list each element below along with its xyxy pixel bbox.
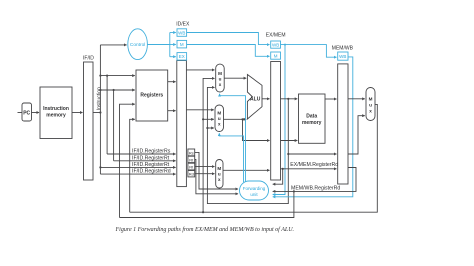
- wire Rd to destination mux: [195, 173, 215, 175]
- wire EX/MEM.RegisterRd down to forwarding unit: [273, 169, 283, 184]
- svg-text:IF/ID.RegisterRd: IF/ID.RegisterRd: [132, 169, 171, 175]
- node bus junction at IF/ID output: [99, 111, 101, 113]
- registers: [136, 70, 168, 121]
- Rt field box: [188, 156, 195, 162]
- Rt field box 2: [188, 163, 195, 170]
- svg-text:ALU: ALU: [250, 97, 261, 103]
- svg-text:MEM/WB: MEM/WB: [332, 46, 354, 52]
- svg-text:M: M: [217, 111, 221, 116]
- wire write data riser from bottom rail: [130, 119, 135, 212]
- svg-text:x: x: [218, 177, 221, 182]
- svg-text:x: x: [218, 122, 221, 127]
- svg-text:IF/ID.RegisterRs: IF/ID.RegisterRs: [132, 149, 171, 155]
- Rs field box: [188, 149, 195, 156]
- wire write register rail: [120, 191, 294, 217]
- node write register rail tap: [293, 190, 295, 192]
- wire write register riser from bottom rail: [120, 104, 135, 217]
- svg-text:Instruction: Instruction: [96, 87, 102, 110]
- svg-text:memory: memory: [302, 120, 322, 126]
- wire MEM/WB forward into mux B: [203, 118, 214, 120]
- svg-text:M: M: [274, 53, 278, 58]
- svg-text:WB: WB: [272, 42, 279, 47]
- wire ALU result bypass to MEM/WB: [288, 153, 336, 155]
- svg-text:Instruction: Instruction: [43, 106, 69, 112]
- wire ID/EX WB to EX/MEM WB: [187, 33, 270, 45]
- wire store data to EX/MEM: [243, 119, 270, 140]
- wire bracket to WB: [170, 32, 176, 34]
- wire ALU output to EX/MEM: [262, 98, 270, 100]
- node bypass split junction: [287, 153, 289, 155]
- svg-text:EX/MEM: EX/MEM: [266, 32, 286, 38]
- MEM/WB pipeline register: [332, 46, 354, 184]
- wire MEM/WB ALU result loop to mux M4: [348, 116, 365, 154]
- wire EX/MEM forward into mux B: [207, 127, 213, 129]
- svg-text:EX/MEM.RegisterRd: EX/MEM.RegisterRd: [290, 162, 338, 168]
- node EX/MEM.RegisterRd tap: [282, 168, 284, 170]
- node rail tap for MEM/WB forward: [202, 211, 204, 213]
- svg-text:IF/ID: IF/ID: [83, 56, 94, 62]
- wire mux M2 to ALU with store tap: [224, 118, 247, 120]
- node junction bus read2: [99, 89, 101, 91]
- svg-text:Registers: Registers: [140, 93, 163, 99]
- wire ID/EX M to EX/MEM M: [187, 45, 270, 57]
- wire mux M4 output down to write data rail: [130, 104, 378, 212]
- wire EX/MEM store data to data memory: [281, 140, 298, 142]
- svg-text:EX: EX: [179, 54, 185, 59]
- wire PC input stub: [18, 112, 23, 114]
- wire MEM/WB RegWrite to forwarding unit: [273, 57, 353, 197]
- wire EX/MEM forward vertical down and left: [207, 87, 288, 203]
- wire Rs to forwarding unit: [195, 152, 238, 189]
- svg-text:M: M: [218, 71, 222, 76]
- wire ID/EX read1 to mux A: [186, 69, 214, 71]
- node cyan tee EX/MEM RegWrite: [284, 44, 286, 46]
- op-amp ALU: [247, 75, 262, 120]
- EX/MEM pipeline register: [266, 32, 286, 180]
- wire IF/ID.RegisterRt line: [114, 155, 176, 161]
- wire instruction memory to IF/ID: [72, 112, 83, 114]
- svg-text:Rd: Rd: [189, 172, 194, 177]
- wire read register 1: [100, 75, 134, 77]
- ID/EX EX box: [177, 53, 187, 61]
- svg-text:M: M: [369, 96, 373, 101]
- mux M1 ALU input A: [216, 64, 225, 92]
- wire mux M3 output to EX/MEM: [223, 169, 270, 171]
- data memory: [299, 94, 326, 143]
- wire PC to instruction memory: [32, 112, 40, 114]
- EX/MEM M box: [271, 52, 281, 59]
- wire EX/MEM RegWrite down to forwarding unit: [273, 45, 285, 195]
- wire IF/ID.RegisterRs line: [107, 149, 176, 155]
- wire data memory read data to MEM/WB: [325, 98, 337, 100]
- wire IF/ID.RegisterRd line: [100, 169, 175, 175]
- wire registers read data 2 to ID/EX: [168, 110, 176, 112]
- svg-text:M: M: [217, 166, 221, 171]
- svg-text:u: u: [369, 102, 372, 107]
- node MEM/WB forward to mux B junction: [202, 118, 204, 120]
- svg-text:Figure 1 Forwarding paths from: Figure 1 Forwarding paths from EX/MEM an…: [115, 226, 295, 233]
- wire forwarding unit select to mux M2: [219, 133, 243, 182]
- wire ID/EX read2 to mux B: [186, 109, 213, 111]
- node store tap junction: [241, 118, 243, 120]
- PC: [22, 103, 32, 121]
- svg-text:IF/ID.RegisterRt: IF/ID.RegisterRt: [132, 155, 170, 161]
- node junction Rt riser: [113, 89, 115, 91]
- node junction Rs riser: [106, 75, 108, 77]
- svg-text:M: M: [180, 42, 184, 47]
- wire IF/ID.RegisterRt second line: [99, 162, 175, 168]
- wire EX/MEM ALU result to data memory address: [281, 98, 298, 100]
- control wires Control to ID/EX bracket: [147, 33, 169, 57]
- node forward tap junction: [287, 98, 289, 100]
- svg-text:PC: PC: [23, 110, 30, 116]
- svg-text:u: u: [218, 171, 221, 176]
- ID/EX WB box: [177, 29, 187, 37]
- svg-text:unit: unit: [250, 192, 258, 197]
- svg-text:Rs: Rs: [189, 150, 194, 155]
- mux M3 destination register: [216, 160, 223, 189]
- mux M2 ALU input B: [215, 105, 224, 132]
- wire mux M1 to ALU: [224, 77, 246, 79]
- svg-text:WB: WB: [339, 54, 346, 59]
- IF/ID pipeline register: [83, 56, 94, 180]
- svg-text:u: u: [218, 116, 221, 121]
- wire Rt riser down: [113, 90, 115, 161]
- ID/EX pipeline register: [176, 21, 190, 186]
- ID/EX M box: [177, 40, 187, 48]
- svg-text:WB: WB: [178, 30, 185, 35]
- wire Rs riser down: [106, 76, 108, 154]
- wire Rt to forwarding unit: [195, 159, 238, 193]
- svg-text:MEM/WB.RegisterRd: MEM/WB.RegisterRd: [291, 185, 340, 191]
- wire Rt to destination mux: [195, 166, 215, 168]
- wire read register 2: [100, 89, 134, 91]
- svg-text:Control: Control: [130, 42, 145, 48]
- wire MEM/WB.RegisterRd loop to forwarding unit: [273, 168, 356, 192]
- wire bracket to M: [170, 44, 176, 46]
- wire registers read data 1 to ID/EX: [168, 81, 176, 83]
- forwarding unit: [240, 181, 269, 200]
- svg-text:x: x: [369, 108, 372, 113]
- svg-text:IF/ID.RegisterRt: IF/ID.RegisterRt: [132, 162, 170, 168]
- wire bracket to EX: [170, 56, 176, 58]
- EX/MEM WB box: [271, 41, 281, 48]
- control U-Control: [128, 29, 148, 60]
- wire forwarding unit select to mux M1: [220, 94, 246, 182]
- wire instruction bus vertical: [99, 45, 101, 174]
- svg-text:Data: Data: [306, 114, 317, 120]
- node junction bus read1: [99, 75, 101, 77]
- svg-text:x: x: [219, 82, 222, 87]
- wire EX/MEM.RegisterRd to MEM/WB: [281, 162, 339, 169]
- svg-text:u: u: [219, 77, 222, 82]
- mux M4 write back: [366, 88, 375, 121]
- instruction memory: [40, 87, 72, 139]
- wire EX/MEM WB to MEM/WB WB: [281, 45, 337, 58]
- Rd field box: [188, 171, 195, 177]
- svg-text:Forwarding: Forwarding: [243, 186, 266, 191]
- node EX/MEM forward to mux B junction: [206, 127, 208, 129]
- svg-text:memory: memory: [46, 113, 66, 119]
- svg-text:ID/EX: ID/EX: [176, 21, 190, 27]
- MEM/WB WB box: [338, 52, 348, 60]
- wire MEM/WB forward riser to muxes: [203, 78, 214, 212]
- wire IF/ID output to instruction bus: [93, 112, 100, 114]
- wire MEM/WB read data to mux M4: [348, 98, 365, 100]
- wire bus to Control: [100, 44, 126, 46]
